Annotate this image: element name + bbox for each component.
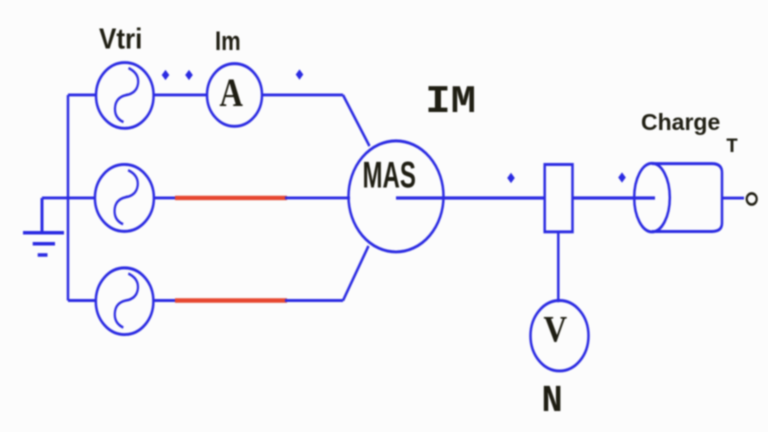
wire: diagonal top into MAS <box>343 95 370 146</box>
source Vtri top <box>96 63 154 129</box>
diamond flag 1 <box>162 70 170 80</box>
wire red bottom <box>175 299 287 303</box>
svg-text:A: A <box>220 71 243 115</box>
diamond flag 3 <box>296 69 304 79</box>
sensor rectangle <box>545 164 573 231</box>
diamond flag 4 <box>507 173 515 183</box>
scaled drawing layer (design space 768x368 stretched vertically) <box>23 63 757 371</box>
motor MAS circle <box>349 141 444 252</box>
voltmeter circle <box>531 301 589 371</box>
svg-text:IM: IM <box>425 80 476 124</box>
source V3 bottom <box>96 268 154 335</box>
diamond flag 5 <box>618 172 626 182</box>
wire: load to terminal <box>722 197 744 200</box>
svg-text:Im: Im <box>215 27 241 57</box>
wire: middle blue before red <box>154 197 176 200</box>
wire red middle <box>175 196 287 200</box>
wire: bottom blue after red <box>285 299 343 302</box>
wire: sensor down to voltmeter <box>557 232 560 302</box>
svg-text:N: N <box>542 380 563 423</box>
wire: bottom blue before red <box>153 299 176 302</box>
shaft line MAS to sensor <box>396 197 545 200</box>
current flag diamonds <box>162 69 626 183</box>
ground <box>23 198 64 255</box>
wire: V1 to ammeter <box>154 94 208 97</box>
shaft line sensor to load <box>573 197 656 200</box>
svg-text:Vtri: Vtri <box>99 22 142 55</box>
svg-text:T: T <box>726 136 738 159</box>
wire: ammeter to corner <box>262 94 344 97</box>
wire: middle blue after red to MAS <box>285 197 350 200</box>
wire top: bus to source V1 <box>68 94 96 97</box>
load cylinder body <box>652 164 722 232</box>
ammeter circle <box>207 64 262 127</box>
wire: left vertical bus <box>67 95 70 301</box>
diamond flag 2 <box>185 70 193 80</box>
svg-text:MAS: MAS <box>363 154 416 196</box>
load cylinder left ellipse <box>634 163 670 232</box>
svg-text:V: V <box>544 308 568 349</box>
wire: diagonal bottom into MAS <box>343 246 369 301</box>
source V2 middle <box>95 164 154 231</box>
svg-text:Charge: Charge <box>641 109 720 135</box>
wire: bottom bus to source V3 <box>68 299 96 302</box>
terminal ring T <box>747 193 757 204</box>
wire: ground horizontal to middle wire <box>42 197 95 200</box>
